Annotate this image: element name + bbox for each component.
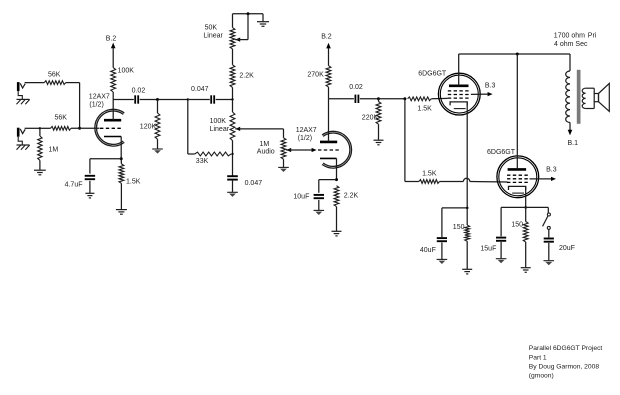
50K wiper arm <box>235 14 248 42</box>
label 220K <box>362 114 379 121</box>
wire 4.7uF to ground <box>89 181 91 193</box>
label 100K <box>118 68 135 75</box>
label 1.5K upper <box>417 105 432 112</box>
resistor 1.5K grid stopper lower <box>419 180 440 184</box>
svg-text:B.3: B.3 <box>546 166 557 173</box>
label 1M <box>49 146 59 153</box>
V3 suppressor grid (dashed) <box>448 90 471 92</box>
label 2.2K cathode <box>344 193 359 200</box>
resistor 1.5K cathode <box>119 159 124 210</box>
label B.2 stage2 <box>321 34 332 41</box>
wire 33K drop <box>188 100 195 155</box>
label B.2 stage1 <box>106 36 117 43</box>
resistor 56K (top input mix) <box>44 81 65 85</box>
node plate rail junction <box>516 53 519 56</box>
label 6DG6GT V3 <box>418 70 447 77</box>
capacitor 0.047 tone C3 <box>227 154 238 180</box>
svg-text:33K: 33K <box>196 158 209 165</box>
chassis ground at J1 <box>17 91 30 104</box>
earth ground under 2.2K <box>332 231 342 236</box>
arrow ground under 20uF <box>544 261 555 266</box>
arrow ground under 120K <box>152 149 163 154</box>
wire 56K top to grid bus corner <box>66 83 80 129</box>
label 33K <box>196 158 209 165</box>
earth ground top right of 50K <box>257 22 269 27</box>
svg-text:6DG6GT: 6DG6GT <box>487 149 516 156</box>
speaker <box>594 83 609 111</box>
B.1 arrow below primary <box>568 122 573 135</box>
1M wiper arm to V2 grid <box>286 148 316 152</box>
svg-text:20uF: 20uF <box>559 245 575 252</box>
V3 screen lead to B.3 <box>471 92 493 96</box>
svg-text:50K: 50K <box>205 24 218 31</box>
svg-text:0.047: 0.047 <box>245 180 263 187</box>
resistor 100K plate load <box>111 68 116 100</box>
capacitor 20uF switched <box>544 239 554 242</box>
wire hop over cathode <box>463 178 469 181</box>
wire tone stack top rail <box>233 14 264 28</box>
svg-text:4 ohm Sec: 4 ohm Sec <box>554 41 588 48</box>
resistor 56K (bottom input) <box>51 126 72 130</box>
input jack J2 (bottom) <box>17 128 25 137</box>
svg-text:Linear: Linear <box>203 33 223 40</box>
arrow ground under 40uF <box>437 259 448 264</box>
svg-text:1M: 1M <box>49 146 59 153</box>
node at grid bus junction <box>78 127 81 130</box>
V2 plate <box>320 99 337 142</box>
node V4 cathode net junction <box>524 206 527 209</box>
svg-text:0.047: 0.047 <box>191 86 209 93</box>
V4 screen lead to B.3 <box>530 177 557 181</box>
V4 suppressor grid (dashed) <box>507 174 530 176</box>
label B.3 lower <box>546 166 557 173</box>
svg-text:0.02: 0.02 <box>132 87 146 94</box>
label 56K bottom <box>55 115 68 122</box>
svg-text:15uF: 15uF <box>480 246 496 253</box>
transformer T1 primary winding <box>566 71 570 123</box>
transformer T1 secondary winding <box>582 88 594 108</box>
B.2 supply arrow stage1 <box>111 43 116 68</box>
label 0.047 C2 <box>191 86 209 93</box>
svg-text:150: 150 <box>453 224 465 231</box>
wire 220K node to output node <box>379 98 405 100</box>
V1 plate <box>104 100 121 121</box>
wire to switch <box>526 207 549 213</box>
earth ground under 150 V3 <box>462 269 472 274</box>
V2 cathode <box>320 158 337 179</box>
label 0.02 C1 <box>132 87 146 94</box>
V3 cathode lead <box>466 102 468 208</box>
earth ground under 220K <box>374 140 384 145</box>
node 33K junction <box>231 153 233 155</box>
V1 cathode <box>104 137 121 159</box>
label 10uF <box>293 194 309 201</box>
resistor 150 cathode V4 <box>523 207 528 267</box>
label 150 V4 <box>511 222 523 229</box>
svg-text:(1/2): (1/2) <box>89 102 103 109</box>
label 1.5K cathode <box>126 179 141 186</box>
wire to C2 <box>188 99 210 101</box>
label 12AX7 (1/2) V1 <box>89 94 110 109</box>
V4 control grid (dashed) <box>507 181 530 183</box>
V2 grid (dashed) <box>318 149 340 151</box>
potentiometer 100K Linear <box>230 100 235 155</box>
svg-text:Audio: Audio <box>257 149 275 156</box>
svg-text:Pri: Pri <box>588 32 597 39</box>
input jack J1 (top) <box>17 82 25 91</box>
V4 cathode lead <box>525 186 527 207</box>
label 0.047 C3 <box>245 180 263 187</box>
label B.3 upper <box>485 83 496 90</box>
node J2/1M junction <box>39 127 41 129</box>
V4 cathode box <box>509 186 526 193</box>
svg-text:By Doug Garmon, 2008: By Doug Garmon, 2008 <box>529 364 600 371</box>
wire J1 to R 56K top <box>25 82 45 84</box>
svg-text:100K: 100K <box>210 118 227 125</box>
B.2 supply arrow stage2 <box>326 43 331 66</box>
svg-text:56K: 56K <box>55 115 68 122</box>
V1 grid (dashed) <box>100 127 123 129</box>
earth ground under 4.7uF <box>85 193 94 198</box>
svg-text:Parallel 6DG6GT Project: Parallel 6DG6GT Project <box>529 345 603 352</box>
svg-text:1M: 1M <box>260 141 270 148</box>
triode V1 12AX7 envelope <box>95 109 124 146</box>
svg-text:B.2: B.2 <box>321 34 332 41</box>
svg-text:220K: 220K <box>362 114 379 121</box>
capacitor 4.7uF cathode bypass <box>85 176 95 179</box>
earth ground under 1.5K <box>116 210 127 215</box>
resistor 270K plate load <box>326 66 331 99</box>
arrow ground under 10uF <box>314 210 325 215</box>
wire rail to OT <box>569 54 571 71</box>
wire 56K to tube V1 grid <box>71 127 100 129</box>
svg-text:40uF: 40uF <box>420 247 436 254</box>
label 120K <box>140 124 157 131</box>
wire C2 to tone stack <box>216 99 233 101</box>
label 1700 ohm Pri / 4 ohm Sec <box>554 32 597 48</box>
100K wiper arm to 1M pot <box>235 127 283 138</box>
svg-text:2.2K: 2.2K <box>344 193 359 200</box>
wire C3 to ground <box>232 180 234 192</box>
capacitor 40uF bypass <box>437 238 447 241</box>
earth ground under 150 V4 <box>521 268 531 273</box>
label 270K <box>307 71 324 78</box>
label 56K top <box>48 71 61 78</box>
arrow ground under 1M Audio <box>278 167 289 172</box>
label 4.7uF <box>65 181 83 188</box>
svg-text:(1/2): (1/2) <box>298 135 312 142</box>
node wiper/top-rail junction <box>247 12 250 15</box>
label 100K Linear <box>210 118 230 133</box>
resistor 33K <box>195 152 231 156</box>
node 33K drop junction <box>187 98 189 100</box>
resistor 1M (grid leak) <box>38 128 42 170</box>
label 1M Audio <box>257 141 275 156</box>
svg-text:1700 ohm: 1700 ohm <box>554 32 585 39</box>
wire J2 to node <box>25 127 40 129</box>
wire to 0.047 node <box>158 99 188 101</box>
svg-text:12AX7: 12AX7 <box>89 94 110 101</box>
svg-text:Part 1: Part 1 <box>529 354 547 361</box>
label 2.2K tone <box>239 72 254 79</box>
node 220K junction <box>377 97 380 100</box>
label 20uF <box>559 245 575 252</box>
wire to 40uF <box>442 208 467 237</box>
node V2 cathode junction <box>335 178 338 181</box>
wire plate rail <box>459 53 570 55</box>
resistor 2.2K tone <box>230 49 235 100</box>
label 0.02 C4 <box>349 84 363 91</box>
label 12AX7 (1/2) V2 <box>296 127 317 142</box>
svg-text:0.02: 0.02 <box>349 84 363 91</box>
V4 screen grid (dashed) <box>507 178 530 180</box>
wire cathode to C 4.7uF <box>90 159 121 174</box>
svg-text:12AX7: 12AX7 <box>296 127 317 134</box>
wire 15uF to ground <box>500 242 502 258</box>
svg-text:150: 150 <box>511 222 523 229</box>
svg-text:1.5K: 1.5K <box>422 171 437 178</box>
wire 1.5K to hop <box>440 181 464 183</box>
wire C4 to 220K node <box>360 98 379 100</box>
node V3 cathode net junction <box>466 207 469 210</box>
label 15uF <box>480 246 496 253</box>
svg-text:270K: 270K <box>307 71 324 78</box>
svg-text:B.1: B.1 <box>568 140 579 147</box>
arrow ground under 15uF <box>496 259 507 264</box>
switch SW1 open <box>543 213 551 229</box>
label 6DG6GT V4 <box>487 149 516 156</box>
svg-text:10uF: 10uF <box>293 194 309 201</box>
svg-text:(gmoon): (gmoon) <box>529 373 554 380</box>
V3 screen grid (dashed) <box>448 94 471 96</box>
node tone/main junction <box>231 98 233 100</box>
svg-text:6DG6GT: 6DG6GT <box>418 70 447 77</box>
label B.1 <box>568 140 579 147</box>
wire 40uF to ground <box>441 243 443 260</box>
transformer core <box>577 70 581 124</box>
svg-text:56K: 56K <box>48 71 61 78</box>
chassis ground at J2 <box>17 137 30 150</box>
V3 plate <box>449 54 469 86</box>
potentiometer 1M Audio volume <box>281 138 286 167</box>
wire C1 to node <box>140 99 158 101</box>
svg-text:1.5K: 1.5K <box>417 105 432 112</box>
svg-text:B.3: B.3 <box>485 83 496 90</box>
title text block <box>529 345 603 379</box>
wire 20uF to ground <box>548 243 550 260</box>
potentiometer 50K Linear <box>230 28 235 49</box>
wire 10uF to ground <box>318 200 320 210</box>
label 1.5K lower <box>422 171 437 178</box>
resistor 220K grid leak <box>376 99 381 140</box>
capacitor 0.047 coupling C2 <box>211 95 214 103</box>
wire 1.5K node drop <box>405 99 419 182</box>
wire plate to C4 <box>329 98 354 100</box>
wire cathode to 10uF <box>319 180 337 193</box>
wire 1.5K to V3 grid <box>431 97 448 99</box>
svg-text:4.7uF: 4.7uF <box>65 181 83 188</box>
svg-text:Linear: Linear <box>210 126 230 133</box>
node 120K junction <box>156 98 159 101</box>
wire to 15uF <box>501 207 526 236</box>
svg-text:B.2: B.2 <box>106 36 117 43</box>
wire hop to V4 grid <box>470 181 508 184</box>
V3 cathode box <box>450 102 467 109</box>
pentode V4 6DG6GT envelope <box>497 156 539 198</box>
node 1.5K junction <box>403 97 406 100</box>
capacitor 10uF bypass <box>314 195 324 198</box>
resistor 120K grid ref <box>155 100 160 149</box>
resistor 150 cathode V3 <box>465 208 470 269</box>
wire rail to ground stub <box>262 14 264 22</box>
wire switch to 20uF <box>548 230 550 238</box>
V3 control grid (dashed) <box>448 97 471 99</box>
svg-text:1.5K: 1.5K <box>126 179 141 186</box>
resistor 2.2K cathode V2 <box>334 186 339 231</box>
svg-text:2.2K: 2.2K <box>239 72 254 79</box>
svg-text:120K: 120K <box>140 124 157 131</box>
resistor 1.5K grid stopper upper <box>408 97 432 101</box>
label 50K Linear <box>203 24 223 39</box>
V4 plate <box>508 54 526 169</box>
capacitor 0.02 coupling C1 <box>135 95 138 103</box>
label 40uF <box>420 247 436 254</box>
wire node to 56K <box>40 127 51 129</box>
pentode V3 6DG6GT envelope <box>438 73 480 115</box>
earth ground under 1M <box>34 170 46 175</box>
capacitor 0.02 coupling C4 <box>355 95 358 103</box>
node V1 cathode junction <box>120 157 123 160</box>
label 150 V3 <box>453 224 465 231</box>
arrow ground under C3 <box>227 192 238 197</box>
triode V2 12AX7 envelope <box>322 131 351 168</box>
wire plate node to C1 <box>113 99 134 101</box>
capacitor 15uF bypass <box>496 238 506 241</box>
svg-text:100K: 100K <box>118 68 135 75</box>
